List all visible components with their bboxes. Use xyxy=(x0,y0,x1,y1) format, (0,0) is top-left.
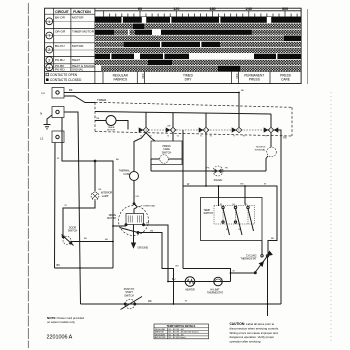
svg-text:CAUTION:: CAUTION: xyxy=(230,322,246,326)
motor winding box xyxy=(126,214,144,225)
svg-text:SWITCH: SWITCH xyxy=(68,230,78,233)
svg-text:240: 240 xyxy=(246,7,252,11)
svg-text:W: W xyxy=(57,158,60,160)
svg-text:HEAT: HEAT xyxy=(72,58,80,62)
thermal fuse xyxy=(130,172,139,181)
svg-text:RD: RD xyxy=(271,238,275,240)
circled contact number 4 xyxy=(46,64,53,71)
svg-text:B1 - B2, B3 - B4: B1 - B2, B3 - B4 xyxy=(169,329,185,331)
svg-text:B5: B5 xyxy=(245,204,247,206)
cam bar row 4 xyxy=(95,35,301,41)
svg-text:T6: T6 xyxy=(210,136,212,138)
svg-text:Label all wires prior to: Label all wires prior to xyxy=(246,322,275,326)
svg-text:N: N xyxy=(40,112,42,116)
svg-text:GROUND: GROUND xyxy=(138,247,149,250)
cam bar row 6 xyxy=(95,47,301,53)
svg-text:dangerous operation. Verify p: dangerous operation. Verify proper xyxy=(230,335,275,339)
cam bar row 7 heat xyxy=(95,53,189,59)
svg-text:BK: BK xyxy=(57,263,61,267)
svg-text:180: 180 xyxy=(209,7,215,11)
heater xyxy=(185,277,195,287)
svg-text:TIMER MOTOR: TIMER MOTOR xyxy=(72,30,95,34)
wire contact3 drop xyxy=(205,133,207,186)
temp switch inner dashed xyxy=(214,206,255,225)
svg-text:BK: BK xyxy=(99,189,102,191)
svg-text:SIGNAL: SIGNAL xyxy=(214,179,223,182)
svg-text:W/SIGNAL: W/SIGNAL xyxy=(255,149,266,152)
svg-text:B1 - B2 (NO Heat): B1 - B2 (NO Heat) xyxy=(169,336,186,339)
wire lamp to door switch xyxy=(63,201,95,236)
svg-text:BU-PU: BU-PU xyxy=(55,44,65,48)
svg-text:OFF: OFF xyxy=(141,73,145,79)
svg-text:PK: PK xyxy=(225,168,228,170)
press care switch box xyxy=(151,141,182,165)
svg-text:OVERLOAD: OVERLOAD xyxy=(143,204,156,207)
svg-text:RD: RD xyxy=(241,184,245,186)
svg-text:RD: RD xyxy=(283,137,287,140)
svg-text:TEMP SWITCH DETAILS: TEMP SWITCH DETAILS xyxy=(167,325,196,328)
svg-text:120: 120 xyxy=(173,7,179,11)
big box left from contact T xyxy=(182,130,184,269)
svg-text:Wiring errors can cause improp: Wiring errors can cause improper and xyxy=(230,331,279,335)
svg-text:B1 - B2, B3 - B5 (NO B4 Switch: B1 - B2, B3 - B5 (NO B4 Switch) xyxy=(169,331,199,334)
svg-text:MOTOR: MOTOR xyxy=(72,15,84,19)
ruler numbers xyxy=(138,7,288,11)
motor left wire xyxy=(113,225,126,227)
wire L1 top BK xyxy=(64,92,239,94)
svg-text:BK: BK xyxy=(69,88,73,92)
svg-text:OR: OR xyxy=(167,126,171,128)
svg-text:PK-BU: PK-BU xyxy=(55,58,64,62)
svg-text:B4: B4 xyxy=(239,229,241,231)
svg-text:T7: T7 xyxy=(233,136,235,138)
svg-text:B1: B1 xyxy=(220,204,222,206)
svg-text:W: W xyxy=(65,205,68,207)
timer contact 4 xyxy=(236,127,242,132)
svg-text:THERMOSTAT: THERMOSTAT xyxy=(240,258,257,261)
scan edge right xyxy=(330,92,332,344)
cam bar row 8 xyxy=(95,59,301,65)
timer contact 3 xyxy=(203,127,209,132)
svg-text:2M: 2M xyxy=(150,231,153,233)
big box bottom xyxy=(183,269,231,282)
timer contact T/2 xyxy=(170,127,176,132)
cam bar row 2 xyxy=(95,23,301,29)
svg-text:SIGNAL: SIGNAL xyxy=(72,68,84,72)
svg-text:T4: T4 xyxy=(177,136,179,138)
node lamp tap xyxy=(94,160,96,162)
temp switch feeds xyxy=(219,186,246,206)
cam bar row 3 timer motor xyxy=(95,29,252,35)
hi-limit thermostat xyxy=(214,277,223,286)
cam bar slit marks xyxy=(110,17,277,59)
svg-text:W: W xyxy=(233,271,236,273)
svg-text:BU: BU xyxy=(116,159,119,161)
svg-text:1M: 1M xyxy=(146,223,149,225)
wire color labels xyxy=(57,90,275,303)
chart right double border xyxy=(307,9,309,84)
svg-text:60: 60 xyxy=(138,7,142,11)
svg-text:MOTOR: MOTOR xyxy=(107,130,116,132)
svg-text:MOTOR: MOTOR xyxy=(72,44,84,48)
svg-text:MEDIUM: MEDIUM xyxy=(155,332,164,334)
svg-text:CONTACTS CLOSED: CONTACTS CLOSED xyxy=(50,78,82,82)
svg-text:BU: BU xyxy=(176,266,179,268)
svg-text:TIMER: TIMER xyxy=(97,98,107,102)
svg-text:300: 300 xyxy=(282,7,288,11)
svg-text:PK-RD: PK-RD xyxy=(55,68,65,72)
svg-text:W: W xyxy=(187,183,190,186)
svg-text:OR: OR xyxy=(136,196,140,198)
svg-text:FABRICS: FABRICS xyxy=(113,78,127,82)
svg-text:T3: T3 xyxy=(167,136,169,138)
motor right wire to heater xyxy=(144,225,169,282)
contact terminal marks xyxy=(140,136,267,138)
svg-text:BK: BK xyxy=(241,90,244,92)
svg-text:CONTACTS OPEN: CONTACTS OPEN xyxy=(50,73,78,77)
circled contact T xyxy=(46,32,53,39)
wire contact5 to right rail xyxy=(277,130,281,304)
svg-text:AIR FLUFF: AIR FLUFF xyxy=(155,336,166,339)
buzzer wire xyxy=(151,170,266,172)
svg-text:PRESS: PRESS xyxy=(249,78,260,82)
svg-text:THERMOSTAT: THERMOSTAT xyxy=(207,292,224,295)
svg-text:RD: RD xyxy=(148,300,152,303)
cam row white separators xyxy=(95,23,301,65)
timer chart row lines xyxy=(45,14,301,71)
wire contact5 to signal xyxy=(270,133,272,148)
motor ground xyxy=(133,225,135,244)
svg-text:disconnection when servicing c: disconnection when servicing controls. xyxy=(230,326,280,330)
svg-text:FUSE: FUSE xyxy=(124,173,131,176)
svg-text:TM: TM xyxy=(96,118,99,120)
svg-text:T5: T5 xyxy=(200,136,202,138)
svg-text:B2: B2 xyxy=(226,229,228,231)
svg-text:W: W xyxy=(185,301,188,303)
svg-text:OFF: OFF xyxy=(235,73,239,79)
timer motor TM xyxy=(95,120,106,122)
wire temp box to cycling tstat xyxy=(261,241,263,255)
cam bar row 5 motor 2 xyxy=(95,41,301,47)
svg-text:DRY: DRY xyxy=(185,78,193,82)
svg-text:L2: L2 xyxy=(40,137,44,141)
timer contact 5 xyxy=(268,127,274,132)
signal model circle xyxy=(266,156,268,171)
svg-text:on select models only: on select models only xyxy=(47,320,75,324)
svg-text:LAMP: LAMP xyxy=(102,195,109,198)
circled contact number 3 xyxy=(46,57,53,64)
circled contact number 1 xyxy=(46,18,53,25)
timer chart column lines xyxy=(54,8,95,83)
interior lamp xyxy=(91,192,99,200)
svg-text:HEATER: HEATER xyxy=(185,289,195,292)
drive motor dashed circle xyxy=(119,206,149,236)
svg-text:T8: T8 xyxy=(243,136,245,138)
svg-text:3: 3 xyxy=(48,58,51,63)
cam linkage dashed xyxy=(140,129,281,131)
svg-text:BU: BU xyxy=(84,238,87,240)
wire contact1 arms xyxy=(134,133,155,172)
svg-text:TIMER: TIMER xyxy=(108,127,115,129)
heater wire xyxy=(168,281,231,283)
wire contact4 up to L1 xyxy=(238,93,240,128)
big box top wire xyxy=(183,186,277,254)
wire lamp drop xyxy=(94,161,96,192)
svg-text:T9: T9 xyxy=(265,136,267,138)
svg-text:2: 2 xyxy=(48,47,51,52)
svg-text:MOTOR: MOTOR xyxy=(107,217,116,220)
svg-text:BU: BU xyxy=(105,239,108,241)
timer feed wire xyxy=(95,112,271,115)
svg-text:PK: PK xyxy=(207,168,210,170)
wire N down neutral xyxy=(64,112,81,304)
circled contact number 2 xyxy=(46,46,53,53)
temp switch box xyxy=(201,198,263,241)
ground at power cord xyxy=(44,115,53,129)
svg-text:FUNCTION: FUNCTION xyxy=(73,10,91,14)
svg-text:DELICATE: DELICATE xyxy=(155,333,166,336)
temp switch details table xyxy=(154,324,209,339)
svg-text:SWITCH: SWITCH xyxy=(124,294,134,297)
svg-text:L1: L1 xyxy=(42,91,46,95)
cycling tstat output down xyxy=(267,257,269,316)
svg-text:operation after servicing.: operation after servicing. xyxy=(230,340,262,344)
wire door switch out xyxy=(71,241,113,243)
svg-text:SWITCH: SWITCH xyxy=(162,151,172,154)
motor feed with overload xyxy=(134,181,138,214)
scan edge left xyxy=(27,3,29,348)
wire bottom left box xyxy=(55,267,114,269)
cam bar row 9 signal xyxy=(101,65,301,71)
svg-text:OR-OR: OR-OR xyxy=(55,30,66,34)
motor terminals xyxy=(125,224,127,226)
svg-text:B3: B3 xyxy=(233,204,235,206)
svg-text:BK-OR: BK-OR xyxy=(55,15,66,19)
motor switch wire to bottom xyxy=(138,233,174,305)
svg-text:2201006 A: 2201006 A xyxy=(47,335,73,341)
timer contact 1 xyxy=(143,127,149,132)
temp switch terminal ids xyxy=(220,204,247,231)
svg-text:SWITCH: SWITCH xyxy=(204,212,214,215)
timer scale ruler xyxy=(95,11,301,17)
cam bar row 1 motor xyxy=(95,17,301,23)
contacts legend xyxy=(46,73,49,76)
timer dashed box xyxy=(95,102,292,136)
timer chart outer border xyxy=(45,8,302,83)
svg-text:CIRCUIT: CIRCUIT xyxy=(55,10,70,14)
wire contact2 drop xyxy=(172,133,174,141)
wire L2 down xyxy=(54,143,57,269)
wire L1 to timer xyxy=(64,96,95,103)
temp switch contacts xyxy=(222,206,224,208)
centrifugal switch arm xyxy=(120,228,139,233)
svg-text:CARE: CARE xyxy=(281,78,290,82)
svg-text:W: W xyxy=(264,184,267,186)
circuit wire color codes xyxy=(55,15,95,71)
wire N branch to lamp circuit xyxy=(62,118,113,269)
buzzer signal xyxy=(213,166,223,176)
svg-text:B1 - B2, B4 - B5: B1 - B2, B4 - B5 xyxy=(169,334,185,336)
svg-text:REGULAR: REGULAR xyxy=(155,328,166,331)
cycle label row dividers xyxy=(103,71,270,83)
bottom neutral wire xyxy=(81,303,282,305)
svg-text:MODELS: MODELS xyxy=(256,147,266,149)
contact drops from feed xyxy=(146,112,271,127)
